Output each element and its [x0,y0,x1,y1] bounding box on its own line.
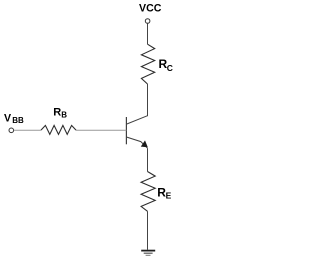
svg-text:BB: BB [12,116,24,125]
svg-text:C: C [167,63,173,73]
svg-text:E: E [166,191,172,201]
svg-text:R: R [53,107,61,119]
svg-text:VCC: VCC [139,3,162,15]
svg-text:V: V [4,112,11,124]
svg-text:B: B [61,111,67,120]
